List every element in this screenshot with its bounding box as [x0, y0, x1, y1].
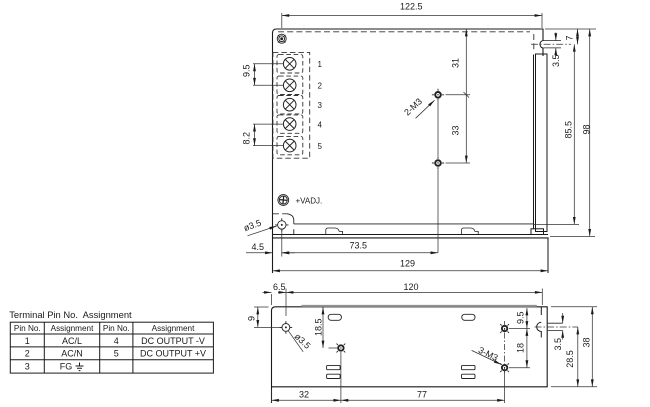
top view inner bottom line	[287, 214, 533, 235]
svg-text:Assignment: Assignment	[51, 324, 95, 333]
svg-text:AC/L: AC/L	[62, 336, 82, 346]
top view inner chassis dashed line	[273, 32, 534, 214]
vent slots left	[327, 365, 341, 378]
table row 2	[25, 349, 206, 359]
terminal screws 1-5	[283, 58, 296, 152]
table grid	[10, 322, 213, 373]
center line between right M3 holes	[504, 321, 506, 375]
slot center dash-dot	[531, 43, 571, 45]
dimension 18 side	[509, 329, 530, 368]
dimension 9	[254, 307, 282, 327]
svg-text:85.5: 85.5	[564, 121, 574, 139]
svg-text:3.5: 3.5	[551, 54, 561, 67]
mounting hole M3 lower	[432, 157, 444, 169]
svg-text:9: 9	[247, 316, 257, 321]
terminal screw cells dashed	[277, 55, 303, 155]
dimension 38	[551, 307, 597, 387]
svg-text:31: 31	[451, 58, 461, 68]
label dia3.5 top view	[242, 218, 276, 236]
terminal block outer dashed box	[273, 52, 310, 158]
label dia3.5 side	[288, 331, 312, 352]
svg-text:ø3.5: ø3.5	[242, 218, 262, 234]
svg-text:1: 1	[25, 336, 30, 346]
M3 hole left of side	[337, 344, 346, 353]
svg-text:DC OUTPUT +V: DC OUTPUT +V	[140, 349, 206, 359]
svg-text:9.5: 9.5	[242, 64, 252, 77]
svg-text:Pin No.: Pin No.	[103, 324, 130, 333]
side slot center dash-dot	[535, 326, 579, 328]
table row 1	[25, 336, 205, 346]
svg-text:DC OUTPUT -V: DC OUTPUT -V	[141, 336, 205, 346]
svg-text:28.5: 28.5	[565, 350, 575, 368]
corner screw	[277, 34, 286, 43]
table header row	[14, 324, 195, 333]
bottom tabs of top view	[326, 228, 478, 234]
dimension 31 / 33	[446, 29, 471, 163]
svg-text:73.5: 73.5	[350, 241, 368, 251]
svg-text:122.5: 122.5	[400, 2, 423, 12]
dimension 98	[550, 29, 595, 236]
hole dia3.5 side	[280, 321, 293, 334]
svg-text:129: 129	[400, 259, 415, 269]
dimension 3.5 top view	[555, 33, 557, 57]
svg-text:32: 32	[299, 389, 309, 399]
svg-text:3-M3: 3-M3	[477, 345, 500, 363]
svg-text:18: 18	[516, 343, 526, 353]
dimension 8.2	[253, 124, 283, 146]
slot upper-right of side	[462, 314, 475, 320]
dimension 129	[273, 240, 549, 273]
svg-text:120: 120	[404, 282, 419, 292]
svg-text:3.5: 3.5	[553, 338, 563, 351]
svg-text:Assignment: Assignment	[152, 324, 196, 333]
svg-text:1: 1	[318, 60, 323, 69]
dimension 77	[341, 399, 505, 401]
dimension 9.5	[253, 64, 283, 86]
vent slots right	[462, 365, 476, 378]
svg-text:9.5: 9.5	[516, 311, 526, 324]
terminal pin numbers	[318, 60, 323, 151]
bar mounting foot	[531, 229, 544, 235]
side notch right	[537, 307, 542, 338]
label 3-M3	[472, 345, 502, 365]
svg-text:33: 33	[451, 125, 461, 135]
svg-text:2: 2	[318, 82, 323, 91]
svg-text:4.5: 4.5	[252, 242, 265, 252]
svg-text:4: 4	[318, 121, 323, 130]
dimension 7	[545, 29, 596, 44]
cover edge bar	[534, 54, 548, 232]
dimension 9.5 side	[509, 308, 530, 329]
label 2-M3	[402, 96, 434, 118]
dimension 73.5	[282, 252, 438, 254]
svg-text:+VADJ.: +VADJ.	[296, 197, 323, 206]
right slot lines	[544, 41, 562, 48]
svg-text:6.5: 6.5	[273, 282, 286, 292]
M3 hole right-top of side	[500, 324, 509, 333]
hole center line vertical	[437, 101, 439, 253]
top lip band	[302, 305, 537, 307]
dimension 32	[272, 390, 341, 403]
svg-text:4: 4	[114, 336, 119, 346]
potentiometer +VADJ	[278, 195, 289, 206]
svg-text:2-M3: 2-M3	[402, 96, 424, 117]
mounting hole M3 top	[432, 89, 444, 101]
M3 hole right-bottom of side	[500, 363, 509, 372]
slot upper-left of side	[328, 314, 341, 320]
svg-text:38: 38	[582, 337, 592, 347]
svg-text:3: 3	[318, 101, 323, 110]
dimension 28.5	[577, 327, 579, 387]
dimension 6.5	[263, 289, 287, 317]
side slot lines right	[548, 323, 563, 330]
side panel outline	[272, 307, 548, 403]
dimension 3.5 side	[562, 313, 564, 340]
svg-text:3: 3	[25, 362, 30, 372]
svg-text:Terminal Pin No. Assignment: Terminal Pin No. Assignment	[9, 309, 132, 320]
svg-text:98: 98	[582, 124, 592, 134]
center line from left M3 hole	[340, 352, 342, 403]
svg-text:ø3.5: ø3.5	[292, 331, 312, 351]
svg-text:77: 77	[417, 389, 427, 399]
dimension 120	[286, 289, 542, 306]
dimension 18.5	[323, 307, 338, 348]
svg-text:AC/N: AC/N	[61, 349, 83, 359]
svg-text:18.5: 18.5	[314, 318, 324, 336]
dimension 85.5	[533, 44, 579, 224]
svg-text:7: 7	[565, 35, 575, 40]
svg-text:2: 2	[25, 349, 30, 359]
svg-text:8.2: 8.2	[242, 132, 252, 145]
svg-text:FG: FG	[60, 362, 73, 372]
dimension 4.5	[246, 229, 295, 257]
table row 3 with FG ground symbol	[25, 362, 84, 372]
hole dia3.5 bottom-left	[275, 218, 288, 231]
top view case outline	[273, 29, 549, 273]
svg-text:5: 5	[114, 349, 119, 359]
dimension 122.5	[282, 13, 542, 28]
svg-text:5: 5	[318, 142, 323, 151]
svg-text:Pin No.: Pin No.	[14, 324, 41, 333]
